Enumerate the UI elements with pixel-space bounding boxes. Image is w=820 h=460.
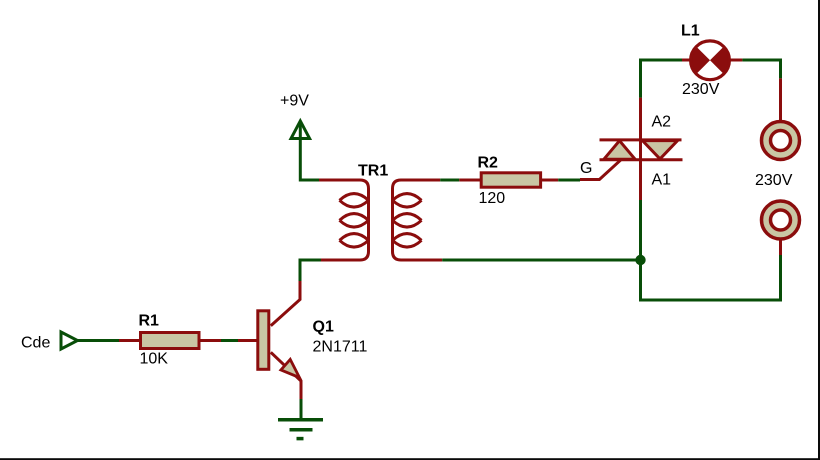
- wire trafo to R2: [440, 179, 459, 182]
- wire A2 up to lamp row: [641, 60, 683, 98]
- wire trafo secondary bottom to junction: [442, 259, 640, 262]
- wire junction to lower terminal: [641, 255, 781, 300]
- sheet border bottom: [0, 458, 820, 460]
- svg-text:Cde: Cde: [21, 335, 50, 352]
- resistor R1 pin right: [201, 339, 222, 342]
- svg-text:L1: L1: [681, 23, 700, 40]
- upper terminal pin: [779, 78, 782, 121]
- transformer TR1 primary loop 2: [340, 214, 369, 228]
- lower terminal pin: [779, 239, 782, 255]
- wire lamp to upper terminal: [742, 60, 780, 78]
- ground symbol: [278, 420, 323, 439]
- svg-text:A2: A2: [652, 114, 672, 131]
- svg-text:A1: A1: [652, 172, 672, 189]
- junction dot: [635, 255, 645, 265]
- triac U1 center segment: [639, 140, 642, 160]
- svg-text:Q1: Q1: [313, 319, 334, 336]
- transformer TR1 secondary loop 1: [393, 194, 422, 208]
- transistor Q1 base pin: [238, 339, 258, 342]
- resistor R1 body: [141, 333, 200, 349]
- lamp L1 pin left: [682, 59, 692, 62]
- svg-text:10K: 10K: [140, 351, 169, 368]
- transformer TR1 primary: [319, 180, 369, 260]
- sheet border right: [818, 0, 820, 460]
- transformer TR1 primary loop 1: [340, 194, 369, 208]
- svg-text:R2: R2: [478, 155, 499, 172]
- lamp L1 body: [691, 41, 730, 80]
- wire A1 down to junction: [639, 200, 642, 260]
- power arrow +9V: [291, 121, 310, 139]
- triac A1 pin: [639, 160, 642, 200]
- transistor Q1 emitter arrow: [281, 359, 300, 377]
- resistor R2 pin right: [541, 179, 559, 182]
- triac A2 pin: [639, 98, 642, 140]
- svg-text:TR1: TR1: [358, 163, 388, 180]
- wire R1 to Q1 base: [221, 339, 238, 342]
- wire +9V rail: [300, 123, 319, 180]
- transformer TR1 secondary loop 2: [393, 214, 422, 228]
- svg-text:G: G: [580, 160, 592, 177]
- triac U1 left triangle: [604, 141, 635, 160]
- lamp L1 pin right: [728, 59, 742, 62]
- svg-text:120: 120: [479, 190, 506, 207]
- triac U1 gate lead: [580, 160, 621, 180]
- triac U1 top bar: [600, 138, 682, 141]
- terminal lower 230V: [762, 201, 800, 239]
- resistor R2 pin left: [459, 179, 481, 182]
- wire trafo bottom to collector: [300, 260, 321, 281]
- transformer TR1 primary loop 3: [340, 234, 369, 248]
- transformer TR1 secondary: [393, 180, 443, 260]
- resistor R1 pin left: [119, 339, 140, 342]
- transformer TR1 secondary loop 3: [393, 234, 422, 248]
- svg-text:R1: R1: [139, 313, 160, 330]
- wire Cde to R1: [77, 339, 119, 342]
- transistor Q1 collector lead: [271, 281, 300, 326]
- transistor Q1 base bar: [258, 311, 269, 370]
- svg-text:2N1711: 2N1711: [313, 339, 368, 356]
- wire emitter to ground: [300, 399, 303, 418]
- svg-text:+9V: +9V: [280, 93, 309, 110]
- svg-text:230V: 230V: [682, 81, 720, 98]
- transistor Q1 emitter lead: [271, 352, 301, 399]
- triac U1 right triangle: [643, 141, 678, 159]
- input terminal Cde: [61, 332, 78, 349]
- triac U1 bottom bar: [600, 158, 683, 161]
- resistor R2 body: [481, 173, 540, 187]
- terminal upper 230V: [762, 122, 800, 160]
- wire R2 to gate: [558, 179, 580, 182]
- svg-text:230V: 230V: [755, 172, 793, 189]
